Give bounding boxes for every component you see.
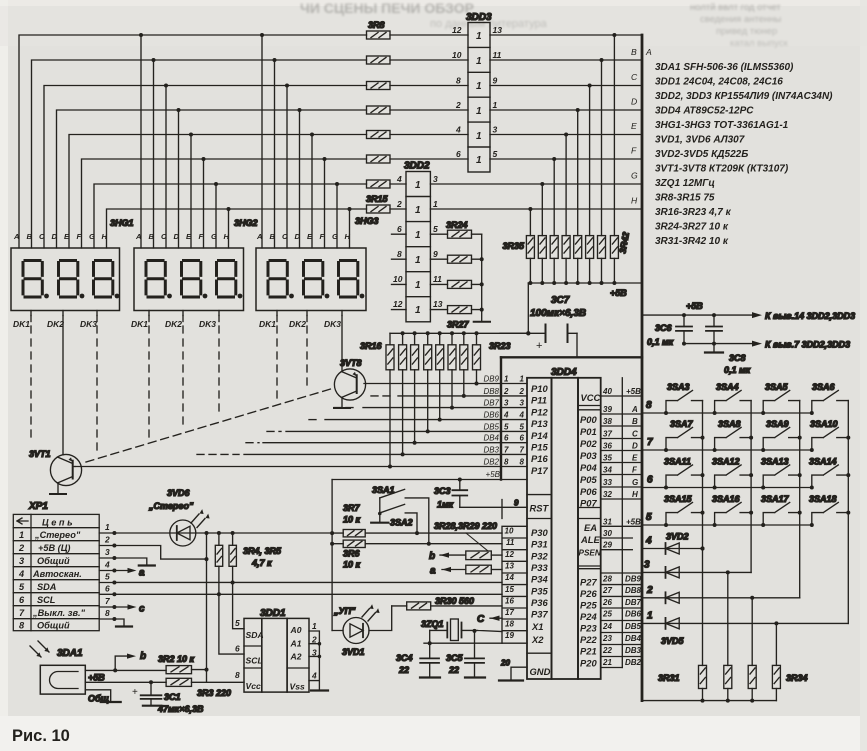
- svg-text:10 к: 10 к: [343, 560, 361, 570]
- junction dots rows x displays: [139, 33, 352, 211]
- display 3HG1: [11, 248, 120, 311]
- svg-text:3R27: 3R27: [447, 320, 470, 330]
- svg-text:11: 11: [493, 50, 502, 60]
- svg-text:3R3 220: 3R3 220: [197, 688, 231, 698]
- svg-text:+5В: +5В: [486, 470, 501, 479]
- svg-text:38: 38: [603, 417, 612, 426]
- svg-text:2: 2: [311, 635, 317, 645]
- capacitor 3C6: [683, 315, 685, 344]
- svg-text:DK3: DK3: [80, 319, 97, 329]
- resistor 3R4: [215, 545, 222, 566]
- svg-text:36: 36: [603, 442, 612, 451]
- svg-text:b: b: [140, 651, 146, 662]
- svg-text:6: 6: [647, 475, 653, 486]
- svg-text:P06: P06: [580, 486, 597, 497]
- svg-text:34: 34: [603, 466, 612, 475]
- group trunk line (thick bus): [641, 35, 644, 701]
- svg-text:P14: P14: [531, 430, 548, 441]
- 3DD4 right column section dividers: [578, 406, 601, 569]
- svg-text:a: a: [139, 568, 145, 579]
- svg-text:3VТ1-3VТ8 КТ209К (КТ3107): 3VТ1-3VТ8 КТ209К (КТ3107): [655, 164, 789, 175]
- svg-text:3HG2: 3HG2: [234, 218, 258, 228]
- keypad row 5 wire: [642, 524, 812, 526]
- svg-text:3SA10: 3SA10: [810, 419, 838, 429]
- wire XP1 pin6 SCL stub: [99, 593, 114, 595]
- left trunk vertical (DB bus to port 1): [500, 357, 502, 479]
- svg-text:DB6: DB6: [483, 411, 499, 420]
- svg-text:+5В: +5В: [610, 288, 627, 298]
- +5V bar of 3VT1 emitter: [50, 493, 66, 495]
- svg-text:A0: A0: [290, 625, 302, 635]
- svg-text:P01: P01: [580, 426, 597, 437]
- svg-text:P33: P33: [531, 562, 548, 573]
- svg-text:G: G: [632, 478, 638, 487]
- svg-text:SDA: SDA: [37, 582, 56, 592]
- svg-text:Автоскан.: Автоскан.: [32, 569, 82, 579]
- svg-text:P16: P16: [531, 453, 548, 464]
- 3DD4 left pin names: [530, 383, 551, 677]
- svg-text:1: 1: [415, 180, 421, 191]
- wire DB2 (to 3VT1 base): [75, 466, 501, 468]
- svg-text:3SA17: 3SA17: [761, 494, 790, 504]
- XP1 pin connection dots: [112, 531, 116, 621]
- svg-text:1: 1: [476, 56, 482, 67]
- svg-text:3SA1: 3SA1: [372, 485, 395, 495]
- resistor 3R7: [343, 530, 365, 537]
- svg-text:3С1: 3С1: [164, 692, 181, 702]
- svg-text:P07: P07: [580, 498, 597, 509]
- svg-text:6: 6: [520, 434, 525, 443]
- svg-text:ЧИ СЦЕНЫ ПЕЧИ ОБЗОР: ЧИ СЦЕНЫ ПЕЧИ ОБЗОР: [300, 0, 474, 16]
- svg-text:C: C: [477, 614, 485, 625]
- svg-text:3VT1: 3VT1: [29, 449, 51, 459]
- ground return wire: [684, 343, 755, 345]
- transistor 3VT1: [50, 316, 81, 495]
- svg-text:7: 7: [504, 445, 509, 454]
- diode 3VD3 (row 3): [642, 571, 751, 573]
- svg-text:3DA1: 3DA1: [57, 648, 83, 659]
- svg-text:8: 8: [235, 670, 240, 680]
- resistor 3R35 (pull to +5V, net H): [526, 236, 534, 259]
- resistor 3R22: [460, 345, 468, 370]
- svg-text:D: D: [631, 97, 637, 107]
- svg-text:8: 8: [397, 249, 402, 259]
- svg-text:8: 8: [105, 608, 110, 618]
- port0 / port2 right ladder: [601, 378, 623, 668]
- svg-text:3DD4: 3DD4: [551, 367, 577, 378]
- ground of 3C5: [465, 676, 485, 678]
- svg-text:B: B: [270, 232, 276, 241]
- resistor 3R13: [367, 155, 391, 163]
- column junction dots: [701, 436, 851, 551]
- svg-text:VCC: VCC: [581, 392, 601, 403]
- resistor 3R10: [367, 82, 391, 90]
- svg-text:4: 4: [18, 569, 24, 579]
- svg-text:DB3: DB3: [625, 646, 642, 655]
- svg-text:11: 11: [506, 538, 515, 547]
- svg-text:26: 26: [602, 598, 612, 607]
- svg-text:1: 1: [476, 81, 482, 92]
- svg-text:3С8: 3С8: [729, 353, 746, 363]
- resistor 3R25: [448, 255, 472, 263]
- resistor 3R36 net G: [538, 236, 546, 259]
- switch 3SA5: [763, 390, 800, 413]
- svg-text:b: b: [429, 551, 435, 562]
- svg-text:3R2 10 к: 3R2 10 к: [158, 654, 195, 664]
- svg-text:C: C: [39, 232, 45, 241]
- dots of pull resistor taps on rows: [528, 33, 616, 211]
- svg-text:3SA18: 3SA18: [809, 494, 837, 504]
- diode row junction dots: [701, 547, 779, 626]
- svg-text:10 к: 10 к: [343, 515, 361, 525]
- svg-text:5: 5: [19, 582, 25, 592]
- svg-text:DB4: DB4: [625, 634, 642, 643]
- svg-text:23: 23: [602, 634, 612, 643]
- wire XP1 pin5 SDA stub: [99, 582, 114, 584]
- svg-text:1: 1: [312, 621, 317, 631]
- svg-text:10: 10: [393, 274, 403, 284]
- svg-text:1: 1: [19, 530, 24, 540]
- wire +5V rail down to 3C7 row: [527, 283, 529, 333]
- svg-text:3R16-3R23 4,7 к: 3R16-3R23 4,7 к: [655, 207, 732, 218]
- trunk horizontal branch to left ladder: [501, 356, 642, 358]
- crystal 3ZQ1: [430, 619, 502, 658]
- svg-text:DK2: DK2: [47, 319, 64, 329]
- wire DB7: [334, 407, 358, 409]
- resistor 3R9: [367, 56, 391, 64]
- svg-text:3: 3: [493, 125, 498, 135]
- svg-text:D: D: [295, 232, 301, 241]
- keypad row 8 wire: [642, 412, 812, 414]
- resistor 3R33: [748, 665, 756, 688]
- svg-text:SCL: SCL: [37, 595, 56, 605]
- svg-text:К выв.7 3DD2,3DD3: К выв.7 3DD2,3DD3: [765, 340, 850, 350]
- rail on top of 3R16-3R23: [390, 332, 528, 334]
- svg-text:DB5: DB5: [625, 622, 642, 631]
- svg-text:7: 7: [19, 608, 25, 618]
- dashed riser DK3 of 3HG1: [96, 316, 98, 322]
- port3 ladder cells pins 10-19: [502, 526, 527, 643]
- svg-text:DK1: DK1: [131, 319, 148, 329]
- resistor 3R27: [448, 306, 472, 314]
- svg-text:3VT8: 3VT8: [340, 358, 362, 368]
- svg-text:SCL: SCL: [246, 656, 263, 666]
- wire DB3: [197, 453, 239, 455]
- svg-text:привед тюнер: привед тюнер: [716, 26, 777, 37]
- svg-text:DB4: DB4: [483, 434, 499, 443]
- switch 3SA15: [666, 502, 703, 525]
- wire XP1 pin7 net c arrow: [99, 606, 130, 608]
- svg-text:DB6: DB6: [625, 610, 642, 619]
- resistor 3R8: [367, 31, 391, 39]
- switch 3SA16: [715, 502, 752, 525]
- svg-text:16: 16: [505, 597, 514, 606]
- svg-text:5: 5: [493, 149, 498, 159]
- svg-text:F: F: [320, 232, 325, 241]
- resistor 3R26: [448, 280, 472, 288]
- svg-text:4: 4: [396, 174, 402, 184]
- svg-text:B: B: [27, 232, 33, 241]
- svg-text:3R7: 3R7: [343, 503, 361, 513]
- 3DD1 address pins to ground: [309, 631, 319, 691]
- svg-text:6: 6: [19, 595, 25, 605]
- svg-text:3SA8: 3SA8: [718, 419, 741, 429]
- svg-text:3VD2: 3VD2: [666, 532, 689, 542]
- svg-text:+5В: +5В: [626, 387, 641, 396]
- svg-text:3SA7: 3SA7: [670, 419, 694, 429]
- svg-text:+5В (Ц): +5В (Ц): [38, 543, 70, 553]
- net a arrow with resistor 3R28: [442, 565, 502, 574]
- svg-text:1: 1: [520, 375, 525, 384]
- svg-text:EA: EA: [584, 522, 597, 533]
- switch 3SA13: [763, 465, 800, 488]
- svg-text:31: 31: [603, 517, 612, 526]
- wire row B: [32, 60, 469, 248]
- +5V feed wire to P17 cell: [332, 479, 527, 481]
- svg-text:„Стерео": „Стерео": [148, 501, 194, 511]
- keypad row 6 wire: [642, 487, 812, 489]
- svg-text:2: 2: [455, 100, 461, 110]
- svg-text:E: E: [632, 454, 638, 463]
- svg-text:25: 25: [602, 610, 612, 619]
- svg-text:4: 4: [311, 671, 317, 681]
- svg-text:3VD6: 3VD6: [167, 488, 191, 498]
- ground of 3C4: [420, 676, 440, 678]
- svg-text:3R31-3R42 10 к: 3R31-3R42 10 к: [655, 236, 729, 247]
- diode 3VD5 (row 1): [642, 622, 848, 624]
- wire XP1 pin3 to ground: [99, 558, 147, 566]
- svg-text:10: 10: [505, 527, 514, 536]
- svg-text:17: 17: [505, 608, 514, 617]
- wire SCL to port: [114, 593, 502, 595]
- svg-text:3R4, 3R5: 3R4, 3R5: [243, 546, 282, 556]
- resistor 3R23: [473, 345, 481, 370]
- svg-text:DB8: DB8: [483, 387, 499, 396]
- svg-text:G: G: [89, 232, 95, 241]
- switch 3SA4: [715, 390, 752, 413]
- svg-text:1: 1: [476, 155, 482, 166]
- svg-text:5: 5: [520, 422, 525, 431]
- svg-text:ALE: ALE: [580, 534, 600, 545]
- svg-text:Vcc: Vcc: [246, 681, 262, 691]
- svg-text:3SA9: 3SA9: [766, 419, 789, 429]
- resistor 3R32: [724, 665, 732, 688]
- 3DD4 right pin names: [579, 392, 602, 669]
- svg-text:20: 20: [500, 659, 510, 668]
- svg-text:3DD2, 3DD3 КР1554ЛИ9 (IN74AC3: 3DD2, 3DD3 КР1554ЛИ9 (IN74AC34N): [655, 91, 833, 102]
- resistor 3R20: [436, 345, 444, 370]
- svg-text:1: 1: [493, 100, 498, 110]
- switch 3SA11: [666, 465, 703, 488]
- wire DB6: [309, 419, 321, 421]
- svg-text:DB7: DB7: [483, 399, 499, 408]
- svg-text:A: A: [13, 232, 19, 241]
- svg-text:11: 11: [433, 274, 442, 284]
- svg-text:1: 1: [476, 131, 482, 142]
- dashed riser DK2 of 3HG2: [182, 316, 184, 322]
- svg-text:3R8: 3R8: [368, 20, 385, 30]
- svg-text:39: 39: [603, 405, 612, 414]
- svg-text:C: C: [161, 232, 167, 241]
- svg-text:6: 6: [235, 644, 240, 654]
- svg-text:3R30 560: 3R30 560: [435, 596, 474, 606]
- svg-text:12: 12: [393, 299, 403, 309]
- svg-text:DB2: DB2: [625, 658, 642, 667]
- svg-text:сведения антенны: сведения антенны: [700, 14, 781, 25]
- svg-text:40: 40: [602, 387, 612, 396]
- svg-text:3DD4 АТ89С52-12РС: 3DD4 АТ89С52-12РС: [655, 106, 754, 117]
- svg-text:+5В: +5В: [88, 673, 105, 683]
- resistor 3R5: [229, 545, 236, 566]
- resistor 3R31: [699, 665, 707, 688]
- svg-text:12: 12: [452, 25, 462, 35]
- svg-text:28: 28: [602, 575, 612, 584]
- svg-text:3R6: 3R6: [343, 549, 361, 559]
- +5V bar of 3VT8 emitter: [334, 407, 350, 409]
- svg-text:C: C: [631, 72, 638, 82]
- svg-text:F: F: [77, 232, 82, 241]
- svg-text:PSEN: PSEN: [579, 549, 602, 558]
- resistor 3R38 net E: [562, 236, 570, 259]
- svg-text:К выв.14 3DD2,3DD3: К выв.14 3DD2,3DD3: [765, 311, 855, 321]
- svg-text:4: 4: [104, 560, 110, 570]
- resistor 3R3: [166, 678, 191, 686]
- wire DB4: [246, 442, 259, 444]
- dashed riser DK1 of 3HG1: [30, 316, 32, 322]
- svg-text:P36: P36: [531, 597, 548, 608]
- svg-text:3HG3: 3HG3: [355, 216, 379, 226]
- microcontroller 3DD4 body: [527, 378, 601, 679]
- svg-text:4: 4: [503, 411, 509, 420]
- svg-text:3: 3: [504, 399, 509, 408]
- inverter chip 3DD3: [468, 23, 490, 173]
- svg-text:22: 22: [602, 646, 612, 655]
- resistor 3R19: [424, 345, 432, 370]
- switch 3SA1: [380, 489, 429, 543]
- IR receiver 3DA1: [40, 665, 85, 694]
- svg-text:4: 4: [455, 125, 461, 135]
- svg-text:3R24-3R27 10 к: 3R24-3R27 10 к: [655, 222, 729, 233]
- svg-text:P05: P05: [580, 474, 597, 485]
- diode 3VD2 (row 4): [642, 548, 703, 550]
- resistor 3R17: [399, 345, 407, 370]
- svg-text:A: A: [631, 405, 638, 414]
- svg-text:3С5: 3С5: [446, 653, 464, 663]
- svg-text:H: H: [632, 490, 638, 499]
- svg-text:+: +: [132, 687, 138, 698]
- svg-text:3DD1 24С04, 24С08, 24С16: 3DD1 24С04, 24С08, 24С16: [655, 77, 783, 88]
- wire row A (segment bus, display side to resistor 3R8): [19, 35, 468, 248]
- svg-text:+5В: +5В: [686, 301, 703, 311]
- LED 3VD1: [332, 604, 392, 643]
- svg-text:22: 22: [448, 665, 459, 675]
- inverter chip 3DD2: [406, 172, 430, 322]
- svg-text:3R28,3R29 220: 3R28,3R29 220: [434, 521, 497, 531]
- diode 3VD4 (row 2): [642, 597, 800, 599]
- switch 3SA18: [812, 502, 849, 525]
- svg-text:3R34: 3R34: [786, 673, 808, 683]
- svg-text:22: 22: [398, 665, 409, 675]
- svg-text:G: G: [631, 171, 638, 181]
- pin 9 RST cell: [460, 500, 527, 519]
- keypad row 7 wire: [642, 449, 812, 451]
- svg-text:3: 3: [520, 399, 525, 408]
- svg-text:19: 19: [505, 631, 514, 640]
- svg-text:P24: P24: [580, 611, 597, 622]
- svg-text:D: D: [52, 232, 58, 241]
- resistor 3R12: [367, 131, 391, 139]
- svg-text:P20: P20: [580, 658, 597, 669]
- wire DB9 (to 3VT8 base): [364, 383, 501, 385]
- svg-text:P10: P10: [531, 383, 548, 394]
- svg-text:катал выпуск: катал выпуск: [730, 38, 789, 49]
- wire SDA to port: [114, 581, 502, 583]
- svg-text:13: 13: [433, 299, 443, 309]
- svg-text:X2: X2: [531, 634, 544, 645]
- svg-text:8: 8: [456, 76, 461, 86]
- svg-text:Общ: Общ: [88, 694, 109, 704]
- resistor 3R21: [448, 345, 456, 370]
- svg-text:6: 6: [456, 149, 461, 159]
- wire XP1 pin4 net a arrow: [99, 570, 130, 572]
- XP1 header arrow: [17, 518, 28, 524]
- svg-text:14: 14: [505, 573, 514, 582]
- svg-text:3DD2: 3DD2: [404, 161, 430, 172]
- component list: [655, 62, 833, 247]
- svg-text:DB9: DB9: [483, 375, 499, 384]
- display 3HG1 DK pins: [31, 311, 97, 316]
- svg-text:3С7: 3С7: [551, 295, 570, 306]
- switch 3SA3: [666, 390, 703, 413]
- capacitor 3C3: [452, 480, 467, 508]
- svg-text:ХР1: ХР1: [28, 501, 48, 512]
- dashed riser DK1 of 3HG2: [148, 316, 150, 322]
- wire row E: [69, 135, 468, 249]
- svg-text:1: 1: [504, 375, 509, 384]
- 3DD2 spare input stubs: [392, 234, 407, 309]
- resistor 3R40 net C: [586, 236, 594, 259]
- svg-text:P13: P13: [531, 418, 548, 429]
- switch 3SA12: [715, 465, 752, 488]
- svg-text:1: 1: [415, 230, 421, 241]
- svg-text:3R8-3R15 75: 3R8-3R15 75: [655, 193, 715, 204]
- svg-text:3HG1: 3HG1: [110, 218, 134, 228]
- wire DB5: [267, 430, 281, 432]
- svg-text:3SA16: 3SA16: [712, 494, 741, 504]
- svg-text:P23: P23: [580, 623, 597, 634]
- capacitor 3C5: [465, 631, 484, 678]
- svg-text:2: 2: [519, 387, 525, 396]
- wire row D: [57, 110, 469, 248]
- svg-text:3DD3: 3DD3: [466, 12, 492, 23]
- svg-text:4,7 к: 4,7 к: [251, 558, 272, 568]
- switch 3SA8: [715, 427, 752, 450]
- svg-text:H: H: [345, 232, 351, 241]
- LED 3VD6: [170, 509, 210, 546]
- svg-text:P21: P21: [580, 646, 597, 657]
- resistor 3R15: [367, 205, 391, 213]
- svg-text:Общий: Общий: [37, 621, 70, 631]
- svg-text:3ZQ1: 3ZQ1: [421, 619, 444, 629]
- svg-text:13: 13: [493, 25, 503, 35]
- switch 3SA9: [763, 427, 800, 450]
- svg-text:H: H: [631, 196, 638, 206]
- svg-text:2: 2: [104, 535, 110, 545]
- svg-text:5: 5: [646, 512, 652, 523]
- svg-text:G: G: [211, 232, 217, 241]
- wire row G: [94, 184, 406, 248]
- svg-text:G: G: [332, 232, 338, 241]
